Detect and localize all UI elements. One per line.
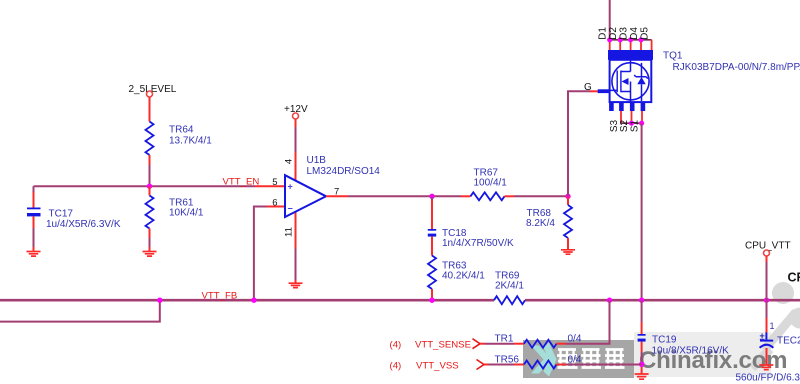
ground (op-amp U1B)	[289, 283, 303, 287]
svg-text:40.2K/4/1: 40.2K/4/1	[442, 271, 485, 282]
junction pin6 branch	[251, 298, 256, 303]
svg-text:11: 11	[284, 227, 295, 237]
svg-text:100/4/1: 100/4/1	[474, 178, 508, 189]
svg-text:+: +	[288, 182, 293, 192]
svg-text:D5: D5	[639, 27, 650, 40]
wire to TC17	[33, 186, 35, 192]
net VTT_EN wire	[34, 185, 256, 187]
ground (TR68)	[561, 250, 575, 254]
wire TQ1 drain net from top	[609, 0, 611, 40]
wire TEC2 to ground	[766, 348, 768, 365]
svg-text:D2: D2	[608, 27, 619, 40]
ground (TR61)	[143, 252, 157, 257]
wire TEC2 branch	[766, 300, 768, 318]
resistor TR67	[471, 168, 508, 201]
power terminal +12V	[284, 104, 308, 119]
capacitor TC19	[638, 334, 730, 357]
svg-text:−: −	[288, 204, 293, 214]
junction drain pins	[607, 37, 644, 42]
wire TC17 to ground	[33, 216, 35, 228]
wire gate net to TQ1	[568, 91, 590, 196]
wire source stubs	[621, 111, 642, 123]
junction CPU_VTT bus	[764, 298, 769, 303]
net VTT_FB bus	[0, 299, 494, 302]
wire CPU_VTT to bus	[766, 256, 768, 262]
ground (TEC2)	[759, 365, 773, 370]
svg-text:(4): (4)	[390, 361, 402, 372]
svg-text:TR1: TR1	[495, 334, 514, 345]
wire drain pin connector	[609, 39, 652, 41]
svg-text:LM324DR/SO14: LM324DR/SO14	[307, 166, 381, 177]
junction TR63 bus	[429, 298, 434, 303]
junction VTT_VSS node	[639, 362, 644, 367]
resistor TR68	[526, 205, 572, 238]
op-amp U1B	[285, 155, 380, 217]
junction TR1 bus	[607, 298, 612, 303]
svg-text:TC17: TC17	[49, 209, 74, 220]
resistor TR56	[495, 355, 582, 369]
wire TR63 to VTT_FB bus	[431, 289, 433, 300]
wire source pin connector	[621, 122, 642, 124]
resistor TR63	[428, 256, 485, 290]
wire TC18 branch	[431, 196, 433, 200]
wire TC18 to TR63	[431, 237, 433, 256]
wire TR64 to node VTT_EN	[149, 155, 151, 165]
svg-text:560u/FP/D/6.3V: 560u/FP/D/6.3V	[736, 373, 800, 384]
svg-text:4: 4	[284, 159, 295, 164]
wire TR56 to VTT_VSS node	[557, 364, 567, 366]
power terminal CPU_VTT	[745, 241, 791, 257]
svg-text:13.7K/4/1: 13.7K/4/1	[169, 136, 212, 147]
svg-text:TR64: TR64	[169, 125, 194, 136]
wire TC19 branch	[641, 300, 643, 322]
svg-text:TQ1: TQ1	[663, 51, 683, 62]
svg-text:10K/4/1: 10K/4/1	[169, 208, 204, 219]
svg-text:7: 7	[334, 187, 339, 198]
svg-text:TEC2: TEC2	[777, 336, 800, 347]
wire pin 6 branch	[254, 207, 267, 301]
junction op-amp output node	[429, 194, 434, 199]
svg-text:10u/8/X5R/16V/K: 10u/8/X5R/16V/K	[652, 346, 730, 357]
wire TC19 to ground	[641, 342, 643, 352]
wire TR68 to ground	[567, 238, 569, 250]
junction VTT_EN node	[147, 184, 152, 189]
svg-text:6: 6	[272, 198, 277, 209]
resistor TR1	[495, 334, 582, 348]
capacitor TC18	[428, 228, 514, 249]
svg-text:U1B: U1B	[307, 155, 327, 166]
capacitor TC17	[27, 208, 121, 231]
net label VTT_SENSE	[390, 339, 481, 351]
wire TR67 to TR68 node	[505, 195, 515, 197]
transistor TQ1	[598, 50, 800, 111]
svg-text:VTT_SENSE: VTT_SENSE	[415, 340, 471, 351]
ground (TC19)	[635, 374, 649, 379]
wire source to VTT_FB bus	[641, 123, 643, 300]
wire VTT_SENSE to TR1	[480, 343, 485, 345]
svg-text:TR56: TR56	[495, 355, 520, 366]
wire feedback step	[0, 300, 160, 321]
resistor TR69	[494, 271, 525, 305]
pin labels D1-D5	[598, 27, 651, 40]
svg-text:8.2K/4: 8.2K/4	[526, 218, 555, 229]
svg-text:(4): (4)	[390, 340, 402, 351]
svg-text:RJK03B7DPA-00/N/7.8m/PPA: RJK03B7DPA-00/N/7.8m/PPA	[673, 62, 800, 73]
svg-text:1n/4/X7R/50V/K: 1n/4/X7R/50V/K	[442, 238, 514, 249]
junction VTT_FB left	[157, 298, 162, 303]
wire VTT_EN node to TR61	[149, 186, 151, 195]
wire op-amp output pin 7	[326, 195, 348, 197]
svg-text:VTT_EN: VTT_EN	[223, 177, 260, 188]
wire TR1 to bus	[557, 343, 567, 345]
svg-text:S2: S2	[619, 119, 630, 132]
svg-text:VTT_VSS: VTT_VSS	[416, 361, 459, 372]
svg-text:1u/4/X5R/6.3V/K: 1u/4/X5R/6.3V/K	[46, 219, 121, 230]
svg-text:D1: D1	[598, 27, 609, 40]
svg-text:2K/4/1: 2K/4/1	[495, 281, 524, 292]
resistor TR64	[146, 122, 213, 156]
wire 2_5LEVEL to TR64	[149, 97, 151, 122]
junction TR68 node	[565, 194, 570, 199]
wire drain stubs	[610, 40, 652, 50]
svg-text:VTT_FB: VTT_FB	[202, 291, 238, 302]
svg-text:5: 5	[272, 177, 277, 188]
watermark	[523, 282, 800, 378]
wire VTT_VSS to TR56	[484, 364, 489, 366]
wire +12V to op-amp pin 4	[295, 119, 297, 127]
svg-text:G: G	[584, 82, 592, 93]
svg-text:S1: S1	[630, 119, 641, 132]
svg-text:D3: D3	[618, 27, 629, 40]
svg-text:D4: D4	[629, 27, 640, 40]
resistor TR61	[146, 196, 204, 229]
junction TC19 bus	[639, 298, 644, 303]
capacitor TEC2	[760, 333, 800, 348]
wire TR68 stub	[567, 196, 569, 205]
svg-text:CR: CR	[788, 271, 800, 285]
svg-text:1: 1	[770, 321, 775, 331]
wire pin 11 to ground	[295, 211, 297, 249]
ground (TC17)	[27, 252, 41, 257]
junction source pins	[629, 121, 634, 126]
pin labels S3 S2 S1	[609, 119, 641, 132]
power terminal 2_5LEVEL	[129, 84, 177, 97]
wire TR61 to ground	[149, 229, 151, 239]
svg-text:TC19: TC19	[652, 335, 677, 346]
net label VTT_VSS	[390, 360, 485, 372]
